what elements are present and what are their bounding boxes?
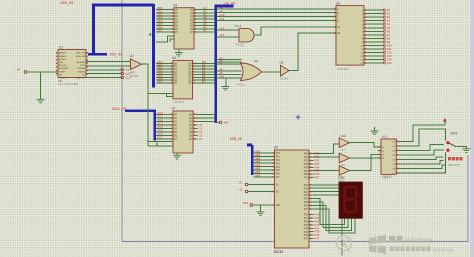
svg-text:BN: BN — [59, 74, 62, 76]
svg-text:READY: READY — [59, 55, 67, 58]
svg-text:U7: U7 — [172, 106, 176, 110]
bus horizontal mid-left — [125, 109, 155, 112]
IC U11 body — [381, 139, 396, 174]
wire to U4 OE control — [167, 94, 174, 97]
switch SW1 lever — [449, 143, 456, 147]
wire U11 row8 up to contact 2 — [401, 153, 446, 174]
wire U11 row6 to switch — [401, 161, 444, 165]
wire to U7 LE control — [148, 141, 173, 143]
IC U7 74LS373 body — [173, 111, 193, 153]
U6 left pin numbers — [334, 8, 335, 34]
watermark text line 1 — [389, 236, 434, 244]
U11 left pin numbers — [379, 146, 380, 159]
svg-text:P07: P07 — [304, 178, 309, 180]
svg-text:SW1: SW1 — [450, 132, 457, 136]
wire U11 row5 to switch — [401, 157, 443, 159]
driver triangle U10-A — [339, 138, 349, 148]
svg-text:A13: A13 — [220, 26, 225, 30]
wire U11 row1 to power rail — [401, 125, 445, 141]
U3 OR gate input wires — [217, 60, 242, 78]
U5 left pin numbers — [172, 9, 173, 33]
wire U5 to ground — [178, 49, 180, 53]
wire U1 pin to terminal 2 — [86, 73, 121, 75]
bus vertical right of latches — [214, 6, 217, 123]
svg-text:U4: U4 — [172, 56, 176, 60]
svg-text:P00: P00 — [304, 154, 309, 156]
svg-text:P16: P16 — [276, 174, 281, 176]
IC U9 80C51 body — [275, 150, 310, 248]
wire U3 input to ground — [225, 78, 227, 87]
svg-text:B7: B7 — [202, 80, 206, 84]
wire Q1 out to U11 — [350, 143, 378, 147]
svg-text:U6: U6 — [336, 1, 340, 5]
svg-text:RESET: RESET — [59, 53, 67, 55]
svg-text:C4: C4 — [199, 137, 203, 141]
U7 left pin numbers — [171, 114, 172, 140]
driver triangle U10-B — [339, 153, 349, 163]
op-amp U2 — [130, 59, 141, 70]
wire P0.1 to driver Q2 input — [309, 156, 339, 158]
ground below U1 input — [37, 99, 45, 103]
terminal WR — [219, 121, 222, 124]
svg-text:P32: P32 — [304, 221, 309, 223]
svg-text:IN: IN — [17, 68, 20, 72]
svg-text:XD7: XD7 — [157, 80, 163, 84]
svg-text:P07: P07 — [315, 176, 320, 180]
wire U1 pin to terminal 3 — [86, 76, 121, 78]
svg-text:P37: P37 — [304, 239, 309, 241]
svg-text:ASD_HS: ASD_HS — [61, 1, 74, 5]
wire U5 LE control to bus — [156, 36, 174, 42]
wire U11 row4 to switch contact 2 — [401, 150, 444, 155]
svg-text:P13: P13 — [276, 163, 281, 165]
svg-text:P24: P24 — [304, 199, 309, 201]
svg-text:AB7: AB7 — [255, 174, 261, 178]
svg-text:P15: P15 — [276, 170, 281, 172]
svg-text:A7: A7 — [203, 29, 207, 33]
U4 right pin numbers — [193, 63, 194, 84]
ground at RST — [257, 212, 265, 216]
watermark Windows flag — [369, 235, 386, 254]
svg-text:ADA_HS: ADA_HS — [110, 53, 123, 57]
svg-text:SW-SPDT: SW-SPDT — [448, 163, 460, 167]
terminal X1 — [245, 183, 248, 186]
power arrow — [443, 118, 447, 122]
OR gate U3 — [241, 63, 262, 81]
IC U1 ADC0804 body — [58, 50, 86, 78]
wire P0.0 to driver Q1 input — [309, 144, 339, 154]
svg-text:P10: P10 — [276, 153, 281, 155]
svg-text:A9: A9 — [220, 71, 224, 75]
wire power stem — [444, 121, 446, 125]
terminal RST — [250, 204, 253, 207]
watermark text line 2 — [390, 247, 455, 254]
svg-text:U5: U5 — [173, 4, 177, 8]
ground below U7 — [173, 155, 181, 159]
svg-text:P14: P14 — [276, 167, 281, 169]
ground at U3 input — [222, 87, 230, 91]
U9 right P2 pin numbers — [310, 184, 311, 210]
svg-text:P35: P35 — [304, 232, 309, 234]
wire U11 row2 to switch contact 1 — [401, 129, 446, 146]
ground above U11 — [371, 131, 379, 135]
wire U2:A output to U6 E1 — [255, 27, 336, 35]
svg-text:Windows: Windows — [405, 237, 434, 244]
svg-text:HS_HS: HS_HS — [225, 1, 236, 5]
U1 left pin numbers — [56, 52, 57, 75]
svg-text:A/LL(P): A/LL(P) — [59, 64, 67, 67]
svg-text:U14_29D-3GBB: U14_29D-3GBB — [58, 82, 78, 86]
wire long net from top-left to switch area — [122, 0, 468, 241]
wire Q2 out to U11 — [350, 157, 378, 159]
wire bus tap to U2:A input 2 — [217, 36, 240, 38]
svg-text:BYE: BYE — [81, 65, 86, 67]
svg-text:D1B/BE: D1B/BE — [77, 68, 85, 70]
U9 right P3 pin numbers — [310, 214, 311, 240]
U4 left bus tap wires — [156, 63, 173, 83]
svg-text:P26: P26 — [304, 206, 309, 208]
svg-text:WR: WR — [59, 62, 63, 64]
P2 wires to display — [309, 185, 339, 195]
wire U5 OE control — [170, 39, 174, 42]
svg-text:U2-A: U2-A — [235, 24, 242, 28]
svg-text:A7: A7 — [220, 61, 224, 65]
U6 output terminals — [383, 9, 385, 11]
svg-text:U2: U2 — [130, 54, 134, 58]
watermark logo circle K — [337, 236, 352, 253]
wire P2.4 display staircase 1 — [309, 199, 345, 225]
U5 right wires to bus — [194, 10, 215, 32]
wire U7 to ground — [176, 153, 178, 155]
AND gate U2:A — [239, 29, 254, 42]
svg-text:P25: P25 — [304, 202, 309, 204]
U7 right wires rows 1-3 to bus — [193, 114, 215, 121]
IC U6 74LS154 body — [336, 6, 364, 66]
svg-text:P03: P03 — [304, 164, 309, 166]
svg-text:U8: U8 — [280, 61, 284, 65]
wire switch to ground — [456, 146, 466, 148]
svg-text:P31: P31 — [304, 218, 309, 220]
wire P2.6 display staircase 3 — [309, 206, 352, 231]
U4 right wires to bus — [193, 63, 215, 83]
terminal EO — [121, 72, 124, 75]
svg-text:ADA_HS: ADA_HS — [76, 55, 85, 58]
U7 right short stubs rows 4-8 — [193, 125, 198, 139]
svg-text:80C51: 80C51 — [274, 250, 284, 254]
U7 right pin numbers — [194, 114, 195, 140]
terminal IN at U1 left — [24, 71, 27, 74]
U5 left bus tap wires — [156, 10, 174, 32]
wire U11 row3 to switch — [401, 144, 444, 150]
7-segment display body — [339, 182, 362, 218]
wire U1 to op-amp input 2 — [86, 65, 130, 67]
svg-text:RST: RST — [243, 201, 249, 205]
svg-text:DB07/27: DB07/27 — [76, 78, 85, 80]
P3 stub wires — [309, 215, 314, 239]
svg-text:7407: 7407 — [340, 149, 346, 152]
IC U5 74LS373 body — [174, 8, 194, 49]
svg-text:U1: U1 — [59, 45, 63, 49]
svg-text:A10: A10 — [220, 75, 225, 79]
terminal X2 — [245, 190, 248, 193]
wire U1 pin to terminal 1 — [86, 69, 121, 71]
wire bus tap to U2:A input 1 — [217, 29, 240, 31]
wire bus end to WR terminal — [216, 121, 220, 123]
U7 left bus tap wires — [156, 114, 173, 139]
U6 right pin numbers — [365, 9, 366, 63]
svg-text:A8: A8 — [220, 68, 224, 72]
wire XTAL1 terminal to MCU — [248, 184, 275, 186]
wire P2.5 display staircase 2 — [309, 202, 348, 228]
svg-text:ASDL_HS: ASDL_HS — [112, 107, 127, 111]
svg-text:7SEG-B: 7SEG-B — [383, 175, 393, 179]
svg-text:AL/B000: AL/B000 — [77, 61, 86, 64]
svg-text:INTRm: INTRm — [59, 59, 66, 61]
svg-text:NVREF: NVREF — [59, 78, 67, 80]
wire RST terminal to MCU — [253, 204, 275, 206]
wire input terminal to U1 — [27, 71, 58, 73]
wire U1 to op-amp input 1 — [86, 61, 130, 63]
U9 left P1 pin numbers — [272, 152, 273, 178]
svg-text:RST: RST — [276, 205, 281, 207]
U1 right pin numbers — [87, 52, 88, 75]
svg-text:U9: U9 — [274, 146, 278, 150]
svg-text:TEMP: TEMP — [59, 71, 66, 73]
P0 stub wires — [309, 160, 314, 177]
U11 right pin numbers — [397, 141, 398, 174]
svg-text:74HC154: 74HC154 — [337, 67, 349, 71]
svg-text:P36: P36 — [304, 235, 309, 237]
bus vertical at MCU P1 — [251, 145, 254, 175]
svg-text:P04: P04 — [304, 167, 309, 169]
wire U7 OE control seg2 — [157, 145, 173, 147]
U9 left xtal pin numbers — [272, 184, 273, 206]
svg-text:74LS21: 74LS21 — [236, 43, 246, 47]
wire XTAL2 terminal to MCU — [248, 191, 275, 193]
bus vertical left feeding U5/U4 — [152, 4, 155, 88]
svg-text:P27: P27 — [304, 209, 309, 211]
buffer U8 — [281, 65, 290, 76]
svg-text:P20: P20 — [304, 185, 309, 187]
switch SW1 contact 1 — [446, 141, 449, 144]
svg-text:A/LA(PB): A/LA(PB) — [59, 67, 68, 70]
svg-text:74LS04: 74LS04 — [280, 77, 290, 81]
ground at switch — [462, 149, 470, 153]
svg-text:P33: P33 — [304, 225, 309, 227]
terminal CLK — [121, 76, 124, 79]
wire U8 output to U6 E2 — [289, 33, 336, 71]
blue origin cross marker — [296, 115, 301, 120]
wire P0.5 to driver Q3 input — [309, 170, 339, 172]
IC U4 74LS373 body — [173, 60, 193, 99]
wire to U4 LE control — [148, 93, 173, 95]
svg-text:X2: X2 — [239, 187, 243, 191]
svg-text:Windows.: Windows. — [433, 247, 455, 253]
svg-text:A11: A11 — [220, 17, 225, 21]
svg-text:P22: P22 — [304, 192, 309, 194]
svg-text:ASB_HS: ASB_HS — [230, 137, 243, 141]
svg-text:P02: P02 — [304, 160, 309, 162]
right window edge stripe — [471, 0, 474, 257]
wire Q3 out to U11 — [350, 154, 378, 170]
svg-text:U10: U10 — [341, 134, 347, 138]
svg-text:P06: P06 — [304, 174, 309, 176]
bus stub at U1 right (ADDR) — [88, 53, 107, 56]
U5 right pin numbers — [195, 9, 196, 33]
svg-text:7SEG: 7SEG — [338, 180, 345, 183]
svg-text:P12: P12 — [276, 160, 281, 162]
svg-text:P34: P34 — [304, 228, 309, 230]
svg-text:XD7: XD7 — [157, 29, 163, 33]
terminal ST — [121, 69, 124, 72]
wire op-amp output down — [142, 64, 149, 146]
bus vertical up from U1 — [92, 5, 95, 55]
wire P2.7 display staircase 4 — [309, 209, 355, 233]
wire U11 ground stem — [374, 127, 376, 131]
svg-text:S15: S15 — [387, 61, 392, 65]
U6 input wires from bus taps — [217, 9, 337, 21]
svg-text:74LS11: 74LS11 — [236, 83, 245, 87]
U9 right P0 pin numbers — [310, 153, 311, 179]
wire RST to ground — [260, 205, 262, 212]
svg-text:74LS373: 74LS373 — [173, 100, 185, 104]
U6 output wires — [364, 10, 383, 63]
svg-text:U3: U3 — [254, 59, 258, 63]
svg-text:P37: P37 — [315, 237, 320, 241]
svg-text:P23: P23 — [304, 195, 309, 197]
7-segment display segments figure 8 — [343, 186, 357, 214]
U11 right stubs — [396, 141, 401, 173]
svg-text:X1: X1 — [239, 180, 243, 184]
svg-text:WR: WR — [224, 121, 230, 125]
svg-text:ASD_HS: ASD_HS — [76, 52, 85, 55]
wire U3 output to U8 — [262, 71, 281, 73]
wire U11 row7 to switch — [401, 165, 445, 169]
U11 left stubs — [378, 147, 382, 158]
svg-text:74LS04: 74LS04 — [130, 74, 140, 78]
ground below U5 — [175, 53, 183, 57]
driver triangle U10-C — [339, 166, 349, 176]
wire display common down — [341, 218, 343, 255]
switch SW1 contact 2 — [446, 149, 449, 152]
bus horizontal top — [92, 4, 153, 7]
switch red value label — [448, 157, 451, 160]
wire to U7 OE control — [148, 142, 157, 147]
svg-text:P30: P30 — [304, 215, 309, 217]
U4 left pin numbers — [171, 63, 172, 84]
svg-text:U11: U11 — [382, 135, 388, 139]
bus stub top-right with label — [215, 5, 234, 8]
svg-text:DSB/40: DSB/40 — [77, 71, 85, 73]
MCU P1 bus tap wires — [254, 153, 275, 177]
bus stub to MCU P1 — [247, 144, 252, 147]
svg-text:A14: A14 — [220, 33, 225, 37]
bus vertical feeding U7 — [153, 110, 156, 141]
bus direction arrow A — [149, 33, 152, 36]
svg-text:P05: P05 — [304, 171, 309, 173]
svg-text:P01: P01 — [304, 157, 309, 159]
svg-text:XC7: XC7 — [157, 135, 163, 139]
svg-text:P21: P21 — [304, 188, 309, 190]
wire to ground from U1 input — [40, 72, 42, 99]
svg-text:P17: P17 — [276, 177, 281, 179]
